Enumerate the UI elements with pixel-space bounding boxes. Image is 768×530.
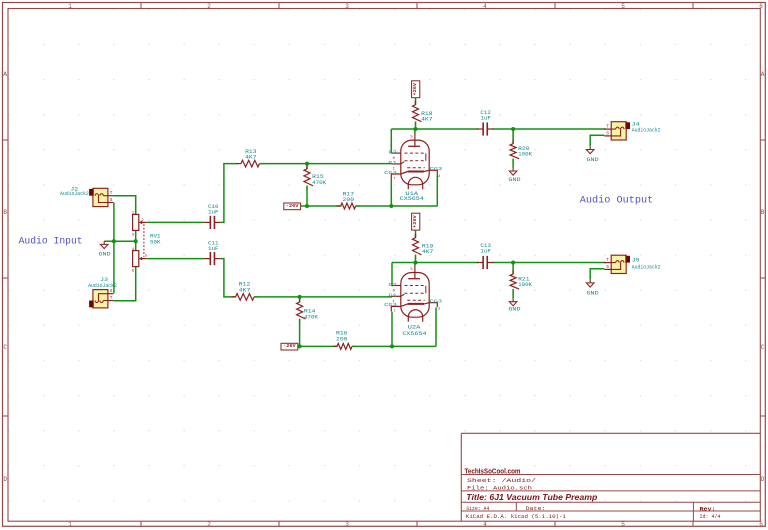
svg-text:CG3: CG3 (384, 302, 397, 308)
svg-text:470K: 470K (312, 180, 327, 186)
svg-text:+26V: +26V (412, 83, 418, 96)
svg-text:200: 200 (343, 197, 355, 203)
svg-text:C: C (3, 344, 7, 351)
svg-text:AudioJack2: AudioJack2 (632, 127, 661, 133)
svg-text:G1: G1 (388, 160, 397, 166)
svg-text:D: D (761, 476, 765, 483)
svg-text:2: 2 (207, 521, 211, 528)
svg-text:File: Audio.sch: File: Audio.sch (467, 484, 532, 491)
svg-text:G2: G2 (388, 149, 397, 155)
svg-text:T: T (606, 258, 609, 263)
svg-text:A: A (761, 71, 765, 78)
svg-text:4K7: 4K7 (422, 249, 434, 255)
svg-text:B: B (3, 209, 7, 216)
svg-text:T: T (110, 191, 113, 196)
svg-text:2: 2 (207, 3, 211, 10)
svg-text:J5: J5 (632, 258, 640, 264)
svg-text:J3: J3 (100, 277, 108, 283)
svg-text:1uF: 1uF (208, 209, 219, 215)
svg-text:6: 6 (759, 3, 763, 10)
svg-text:T: T (606, 125, 609, 130)
svg-text:GND: GND (587, 157, 599, 163)
svg-text:Rev:: Rev: (700, 505, 716, 512)
svg-text:KiCad E.D.A. kicad (5.1.10)-1: KiCad E.D.A. kicad (5.1.10)-1 (466, 513, 567, 520)
svg-text:6: 6 (759, 521, 763, 528)
svg-text:Date:: Date: (526, 505, 546, 512)
svg-text:200: 200 (336, 336, 348, 342)
svg-text:S: S (110, 289, 113, 294)
svg-text:4K7: 4K7 (245, 155, 257, 161)
svg-text:1uF: 1uF (208, 246, 219, 252)
svg-text:+26V: +26V (412, 215, 418, 228)
svg-text:S: S (606, 265, 609, 270)
svg-text:GND: GND (99, 251, 111, 257)
svg-text:100K: 100K (518, 282, 533, 288)
svg-text:CG3: CG3 (430, 166, 443, 172)
svg-text:5: 5 (621, 3, 625, 10)
svg-text:1: 1 (68, 3, 72, 10)
svg-text:AudioJack2: AudioJack2 (632, 265, 661, 271)
svg-text:G2: G2 (388, 282, 397, 288)
svg-text:B: B (761, 209, 765, 216)
svg-text:Audio Input: Audio Input (19, 236, 83, 248)
svg-text:CG3: CG3 (384, 170, 397, 176)
svg-text:-26V: -26V (283, 343, 296, 349)
svg-text:-26V: -26V (286, 203, 299, 209)
svg-text:CG3: CG3 (430, 299, 443, 305)
svg-text:470K: 470K (304, 314, 319, 320)
svg-text:GND: GND (508, 306, 520, 312)
svg-text:4: 4 (483, 3, 487, 10)
svg-text:1: 1 (68, 521, 72, 528)
svg-text:1uF: 1uF (480, 249, 491, 255)
svg-text:A: A (3, 71, 7, 78)
svg-text:AudioJack2: AudioJack2 (60, 191, 89, 197)
svg-text:100K: 100K (518, 151, 533, 157)
svg-text:T: T (110, 296, 113, 301)
svg-text:S: S (110, 198, 113, 203)
svg-text:4: 4 (483, 521, 487, 528)
svg-text:CX5654: CX5654 (402, 330, 427, 337)
svg-text:AudioJack2: AudioJack2 (88, 283, 117, 289)
svg-text:4K7: 4K7 (239, 288, 251, 294)
svg-text:50K: 50K (150, 239, 161, 245)
svg-text:3: 3 (345, 521, 349, 528)
svg-text:1uF: 1uF (480, 116, 491, 122)
svg-text:4K7: 4K7 (421, 117, 433, 123)
svg-text:CX5654: CX5654 (400, 195, 425, 202)
svg-text:Id: 4/4: Id: 4/4 (700, 513, 721, 520)
svg-text:TechIsSoCool.com: TechIsSoCool.com (465, 466, 521, 475)
svg-text:D: D (3, 476, 7, 483)
svg-text:3: 3 (345, 3, 349, 10)
svg-text:Size: A4: Size: A4 (466, 505, 489, 512)
svg-text:GND: GND (508, 177, 520, 183)
svg-text:Title: 6J1 Vacuum Tube Preamp: Title: 6J1 Vacuum Tube Preamp (466, 492, 597, 502)
svg-text:Audio Output: Audio Output (580, 194, 654, 206)
svg-text:C: C (761, 344, 765, 351)
svg-text:S: S (606, 131, 609, 136)
svg-text:GND: GND (587, 290, 599, 296)
svg-text:5: 5 (621, 521, 625, 528)
svg-text:Sheet: /Audio/: Sheet: /Audio/ (467, 477, 537, 484)
